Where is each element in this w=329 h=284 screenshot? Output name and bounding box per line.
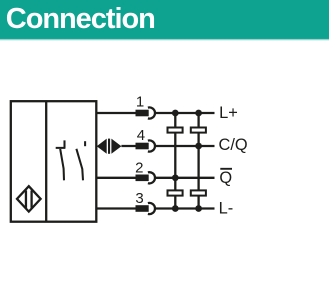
svg-text:3: 3 — [135, 190, 143, 207]
svg-text:Q: Q — [219, 169, 232, 187]
svg-text:C/Q: C/Q — [219, 136, 248, 154]
svg-text:L-: L- — [219, 200, 234, 218]
svg-text:4: 4 — [137, 127, 145, 144]
svg-text:L+: L+ — [219, 104, 238, 122]
svg-text:1: 1 — [136, 93, 144, 110]
svg-text:2: 2 — [135, 159, 143, 176]
